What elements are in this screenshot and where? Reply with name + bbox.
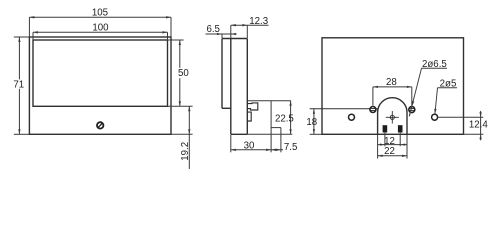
svg-text:18: 18 [306, 117, 317, 128]
svg-text:22.5: 22.5 [275, 113, 294, 124]
svg-text:2ø5: 2ø5 [440, 78, 457, 89]
svg-text:105: 105 [92, 7, 108, 18]
svg-text:12.3: 12.3 [249, 16, 268, 27]
svg-text:30: 30 [244, 140, 255, 151]
svg-text:6.5: 6.5 [206, 24, 219, 35]
svg-text:28: 28 [386, 77, 397, 88]
svg-text:19.2: 19.2 [180, 142, 191, 161]
svg-text:2ø6.5: 2ø6.5 [422, 59, 447, 70]
svg-text:100: 100 [92, 23, 109, 34]
svg-text:22: 22 [384, 146, 395, 157]
svg-text:71: 71 [13, 79, 24, 90]
svg-text:7.5: 7.5 [284, 142, 297, 153]
svg-text:12.4: 12.4 [469, 119, 488, 130]
svg-text:50: 50 [178, 68, 189, 79]
